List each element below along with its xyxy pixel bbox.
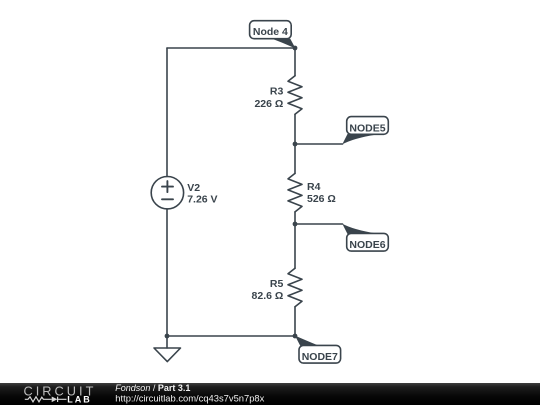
wire stub NODE6: [295, 223, 343, 225]
node flag NODE5: [342, 117, 388, 145]
node 7 junction: [293, 334, 298, 339]
svg-text:R4: R4: [307, 181, 321, 193]
svg-text:NODE7: NODE7: [302, 351, 338, 363]
V2 plus sign: [162, 181, 173, 192]
wire right rail seg2: [294, 114, 296, 173]
wire right rail seg4: [294, 307, 296, 336]
svg-text:526 Ω: 526 Ω: [307, 193, 336, 205]
svg-text:V2: V2: [187, 182, 200, 194]
resistor R5: [288, 268, 302, 307]
V2 minus sign: [162, 198, 173, 200]
svg-text:R5: R5: [270, 278, 284, 290]
wire bottom: [167, 335, 295, 337]
node flag Node 4: [250, 21, 296, 49]
ground junction: [165, 334, 170, 339]
node 4 junction: [293, 46, 298, 51]
wire left upper: [166, 48, 168, 177]
footer bar: [0, 383, 540, 405]
node 5 junction: [293, 142, 298, 147]
logo diode triangle: [52, 397, 58, 403]
ground stem wire: [166, 336, 168, 348]
component labels: [187, 85, 336, 302]
svg-text:NODE6: NODE6: [349, 239, 385, 251]
wire stub NODE5: [295, 143, 343, 145]
wire right rail seg1: [294, 48, 296, 76]
svg-text:82.6 Ω: 82.6 Ω: [252, 290, 284, 302]
svg-text:R3: R3: [270, 85, 284, 97]
resistor R4: [288, 173, 302, 212]
logo resistor-diode squiggle: [25, 397, 67, 402]
ground symbol: [154, 348, 181, 362]
wire top: [167, 47, 295, 49]
wire left lower: [166, 209, 168, 336]
svg-text:NODE5: NODE5: [349, 122, 385, 134]
node flag NODE7: [295, 336, 341, 364]
voltage source V2: [151, 177, 183, 209]
svg-text:Node 4: Node 4: [253, 26, 288, 38]
svg-text:http://circuitlab.com/cq43s7v5: http://circuitlab.com/cq43s7v5n7p8x: [115, 392, 264, 403]
wire right rail seg3: [294, 212, 296, 268]
svg-text:226 Ω: 226 Ω: [254, 98, 283, 110]
resistor R3: [288, 76, 302, 115]
svg-text:7.26 V: 7.26 V: [187, 193, 217, 205]
node 6 junction: [293, 222, 298, 227]
svg-text:LAB: LAB: [67, 395, 92, 405]
node flag NODE6: [342, 224, 388, 251]
